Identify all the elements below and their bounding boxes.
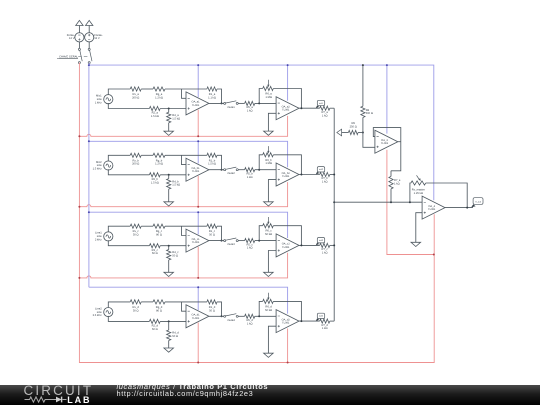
node flag out4: [316, 319, 319, 322]
svg-text:200 Ω: 200 Ω: [132, 96, 139, 99]
resistor R2_c: [149, 244, 160, 248]
wire R7 to summing bus: [330, 107, 334, 109]
CircuitLab logo: [24, 383, 94, 398]
wire R1 down to output: [217, 302, 222, 316]
op-amp OA_a1 TL081: [186, 92, 209, 115]
wire jog to inverting input: [182, 302, 187, 311]
svg-text:1.5 kΩ: 1.5 kΩ: [172, 184, 180, 187]
svg-text:12 V: 12 V: [94, 37, 100, 40]
svg-text:TL081: TL081: [192, 170, 200, 173]
resistor R8: [361, 106, 365, 117]
op-amp OA_d2 TL081: [276, 310, 299, 333]
wire R5 to inverting node: [255, 102, 276, 104]
svg-text:1 kΩ: 1 kΩ: [322, 181, 328, 184]
wire R5 to inverting node: [255, 169, 276, 171]
svg-text:50 Ω: 50 Ω: [152, 328, 158, 331]
power flag V- (arrow): [86, 20, 93, 25]
resistor R4_a (to ground): [168, 109, 170, 113]
svg-text:TL081: TL081: [192, 241, 200, 244]
switch mute1: [224, 102, 226, 104]
footer bar: [0, 385, 540, 405]
wire source bottom: [108, 316, 149, 322]
red drops opamp column 2: [287, 329, 289, 363]
svg-text:12 V: 12 V: [69, 37, 75, 40]
resistor R2_a: [149, 106, 160, 110]
svg-text:mute4: mute4: [227, 319, 235, 322]
summing bus vertical: [333, 108, 335, 321]
op-amp OA_b2 TL081: [276, 163, 299, 186]
wire + input to ground: [268, 326, 276, 353]
svg-text:TL081: TL081: [282, 322, 290, 325]
wire Rx to Rg: [141, 225, 153, 227]
blue power rail: top rail and right vertical: [89, 63, 434, 201]
node junction R4_c: [168, 245, 170, 247]
resistor Rx_a: [130, 87, 141, 91]
red rail row3-4: [79, 253, 287, 278]
op-amp OA_3 TL081: [375, 130, 398, 153]
resistor R7_a: [320, 106, 330, 110]
svg-text:1 kΩ: 1 kΩ: [247, 176, 253, 179]
wire R8 to node: [362, 118, 364, 133]
wire Rg to feedback node: [165, 154, 207, 156]
blue junction dots: [88, 64, 90, 66]
ground: [164, 202, 174, 206]
svg-text:50 Ω: 50 Ω: [172, 335, 178, 338]
resistor R7_b: [320, 172, 330, 176]
wire Rg to feedback node: [165, 301, 207, 303]
resistor Rg_b: [153, 153, 165, 157]
wire R7_e to summing wire: [390, 189, 392, 202]
red junction dots: [78, 135, 80, 137]
blue rail row3-4: [89, 287, 288, 313]
wire source top: [108, 155, 130, 161]
wire R2 to + input: [160, 320, 186, 322]
svg-text:500 Ω: 500 Ω: [366, 112, 373, 115]
resistor R1_c (feedback): [207, 224, 217, 228]
svg-text:1 kΩ: 1 kΩ: [247, 322, 253, 325]
svg-text:80 Ω: 80 Ω: [156, 309, 162, 312]
wire OA_3 output stub: [398, 141, 401, 143]
op-amp OA_b1 TL081: [186, 158, 209, 181]
wire source top: [108, 226, 130, 232]
node flag V_out: [471, 204, 475, 207]
blue drop opamp column 2 row1: [287, 65, 289, 101]
wire op-amp 2 output: [299, 320, 320, 322]
svg-text:1.25 kΩ: 1.25 kΩ: [414, 192, 423, 195]
resistor R1_d (feedback): [207, 300, 217, 304]
wire op-amp output: [209, 169, 225, 171]
resistor Rg_c: [153, 224, 165, 228]
voltage source Fonte- 12 V: [75, 33, 84, 42]
svg-text:mute1: mute1: [227, 106, 235, 109]
blue rail row1-2: [89, 141, 288, 167]
potentiometer Rv_master (feedback): [410, 183, 411, 202]
blue drops opamp column 1: [197, 65, 199, 97]
source Line1 (sine 2 kHz): [104, 232, 113, 241]
potentiometer R6_a (feedback): [259, 89, 263, 104]
resistor R7_e: [390, 171, 392, 177]
red power rail: left vertical, bottom rail, right vertical: [79, 63, 434, 363]
source Line2 (sine 2.5 kHz): [104, 308, 113, 317]
svg-text:50 Ω: 50 Ω: [133, 234, 139, 237]
wire switch to R5: [238, 169, 244, 171]
svg-text:250 Ω: 250 Ω: [350, 125, 357, 128]
ground: [164, 272, 174, 276]
svg-text:50 Ω: 50 Ω: [152, 252, 158, 255]
wire source bottom: [108, 169, 149, 175]
source Mic2 (sine 1.5 kHz): [104, 161, 113, 170]
potentiometer R6_d (feedback): [259, 301, 263, 316]
wire switch to R5: [238, 102, 244, 104]
wire R7 to summing bus: [330, 244, 334, 246]
wire R1 down to output: [217, 89, 222, 103]
wire R2 to + input: [160, 108, 186, 110]
svg-text:1.5 kΩ: 1.5 kΩ: [151, 181, 159, 184]
wire op-amp output: [209, 102, 225, 104]
wire + input to ground: [268, 113, 276, 131]
svg-text:50 Ω: 50 Ω: [209, 234, 215, 237]
wire OA_3 feedback loop: [373, 128, 401, 171]
resistor R1_a (feedback): [207, 87, 217, 91]
wire OA_4 + input to ground: [416, 213, 422, 243]
wire R1 down to output: [217, 155, 222, 169]
resistor R5_d: [245, 314, 255, 318]
op-amp OA_a2 TL081: [276, 97, 299, 120]
voltage source Fonte+ 12 V: [85, 33, 94, 42]
svg-text:1 MΩ: 1 MΩ: [265, 162, 272, 165]
svg-text:1 kΩ: 1 kΩ: [322, 114, 328, 117]
op-amp OA_c2 TL081: [276, 234, 299, 257]
wire Rg to feedback node: [165, 88, 207, 90]
potentiometer R6_b (feedback): [259, 155, 263, 170]
potentiometer R6_c (feedback): [259, 226, 263, 241]
red drops opamp column 1: [197, 110, 199, 137]
svg-text:1 kΩ: 1 kΩ: [322, 252, 328, 255]
resistor Rg_a: [153, 87, 165, 91]
wire R2 to + input: [160, 174, 186, 176]
wire op-amp 2 output: [299, 107, 320, 109]
ground: [411, 242, 421, 246]
wire R8 from V+ rail: [362, 65, 364, 106]
bus junction dots: [333, 174, 335, 176]
wire switch to R5: [238, 315, 244, 317]
ground: [264, 272, 274, 276]
wire source bottom: [108, 240, 149, 246]
node junction R4_b: [168, 174, 170, 176]
svg-text:mute2: mute2: [227, 172, 235, 175]
svg-text:TL081: TL081: [192, 317, 200, 320]
node flag out3: [316, 243, 319, 246]
wire source+ to switch: [88, 42, 90, 49]
wire OA_4 output: [445, 207, 473, 209]
resistor R5_c: [245, 239, 255, 243]
wire op-amp output: [209, 240, 225, 242]
ground: [164, 131, 174, 135]
node flag out1: [316, 106, 319, 109]
svg-text:50 kΩ: 50 kΩ: [265, 233, 272, 236]
svg-text:1.5 kΩ: 1.5 kΩ: [151, 115, 159, 118]
ground: [264, 202, 274, 206]
wire R1 down to output: [217, 226, 222, 240]
wire jog to inverting input: [182, 155, 187, 164]
svg-text:80 Ω: 80 Ω: [156, 234, 162, 237]
svg-text:TL081: TL081: [282, 246, 290, 249]
svg-text:TL081: TL081: [192, 104, 200, 107]
resistor R5_b: [245, 168, 255, 172]
resistor R7_c: [320, 243, 330, 247]
wire + input to ground: [268, 180, 276, 202]
svg-text:50 Ω: 50 Ω: [172, 255, 178, 258]
svg-text:1 kΩ: 1 kΩ: [247, 110, 253, 113]
svg-text:2.5 kHz: 2.5 kHz: [93, 314, 103, 317]
blue rail row2-3: [89, 212, 288, 238]
svg-text:1.1 kΩ: 1.1 kΩ: [208, 96, 216, 99]
op-amp OA_d1 TL081: [186, 305, 209, 328]
svg-text:2 kHz: 2 kHz: [95, 239, 103, 242]
wire Rx to Rg: [141, 301, 153, 303]
wire R7 to summing bus: [330, 174, 334, 176]
svg-text:1.5 kΩ: 1.5 kΩ: [208, 163, 216, 166]
footer text: [117, 382, 269, 391]
svg-text:TL081: TL081: [428, 208, 436, 211]
resistor R2_d: [149, 319, 160, 323]
source Mic1 (sine 1 kHz): [104, 95, 113, 104]
node flag out2: [316, 172, 319, 175]
switch SW1 (CHAVE GERAL pole 1): [78, 48, 80, 50]
svg-text:mute3: mute3: [227, 243, 235, 246]
wire jog to inverting input: [182, 226, 187, 235]
red rail row1-2: [79, 116, 287, 136]
switch mute4: [224, 315, 226, 317]
switch SW2 (CHAVE GERAL pole 2): [88, 48, 90, 50]
resistor Rx_b: [130, 153, 141, 157]
svg-text:50 Ω: 50 Ω: [209, 309, 215, 312]
svg-text:1 MΩ: 1 MΩ: [265, 96, 272, 99]
svg-text:1 kHz: 1 kHz: [95, 101, 103, 104]
resistor R5_a: [245, 101, 255, 105]
wire R2 to + input: [160, 245, 186, 247]
wire source top: [108, 302, 130, 308]
wire Rg to feedback node: [165, 225, 207, 227]
wire op-amp output: [209, 315, 225, 317]
wire Rx to Rg: [141, 154, 153, 156]
svg-text:1 kΩ: 1 kΩ: [247, 247, 253, 250]
wire source bottom: [108, 103, 149, 109]
svg-text:50 Ω: 50 Ω: [133, 309, 139, 312]
wire R7 to summing bus: [330, 320, 334, 322]
wire R9 to node: [358, 132, 363, 134]
wire op-amp 2 output: [299, 174, 320, 176]
resistor R4_d (to ground): [168, 321, 170, 330]
wire summing bus to OA_4 inverting input: [334, 201, 422, 203]
blue drop OA_3: [386, 65, 388, 134]
svg-text:TL081: TL081: [282, 109, 290, 112]
svg-text:1.5 kΩ: 1.5 kΩ: [172, 117, 180, 120]
svg-text:TL081: TL081: [282, 175, 290, 178]
node junction R4_a: [168, 108, 170, 110]
wire switch to R5: [238, 240, 244, 242]
svg-text:TL081: TL081: [381, 142, 389, 145]
ground: [264, 353, 274, 357]
svg-text:1 kΩ: 1 kΩ: [322, 327, 328, 330]
node junction R4_d: [168, 320, 170, 322]
resistor R4_c (to ground): [168, 246, 170, 250]
resistor Rx_c: [130, 224, 141, 228]
power flag V+ (arrow): [76, 20, 83, 25]
resistor Rg_d: [153, 300, 165, 304]
svg-text:V_out: V_out: [475, 200, 481, 203]
node flag (left arrow): [337, 129, 342, 136]
wire Rx to Rg: [141, 88, 153, 90]
resistor R1_b (feedback): [207, 153, 217, 157]
switch mute2: [224, 169, 226, 171]
red rail row2-3: [79, 182, 287, 207]
op-amp OA_4 TL081: [422, 196, 445, 219]
resistor R7_d: [320, 319, 330, 323]
wire R5 to inverting node: [255, 315, 276, 317]
ground: [264, 131, 274, 135]
wire flag to R9: [342, 132, 349, 134]
svg-text:200 Ω: 200 Ω: [132, 163, 139, 166]
wire + input to ground: [268, 251, 276, 273]
wire source top: [108, 89, 130, 95]
ground: [164, 348, 174, 352]
svg-text:CHAVE GERAL: CHAVE GERAL: [59, 56, 78, 59]
svg-text:1.5 kHz: 1.5 kHz: [93, 168, 103, 171]
svg-text:1 kΩ: 1 kΩ: [394, 182, 400, 185]
resistor R9: [348, 130, 358, 134]
wire R5 to inverting node: [255, 240, 276, 242]
blue left vertical: [88, 65, 90, 287]
wire op-amp 2 output: [299, 244, 320, 246]
svg-text:50 kΩ: 50 kΩ: [265, 309, 272, 312]
svg-text:1.2 kΩ: 1.2 kΩ: [155, 96, 163, 99]
red branch OA_3 supply: [387, 150, 434, 255]
op-amp OA_c1 TL081: [186, 229, 209, 252]
wire jog to inverting input: [182, 89, 187, 98]
resistor R2_b: [149, 173, 160, 177]
resistor Rx_d: [130, 300, 141, 304]
wire node to OA_3 + input: [363, 133, 375, 148]
resistor R4_b (to ground): [168, 175, 170, 179]
wire source- to switch: [78, 42, 80, 49]
svg-text:1.2 kΩ: 1.2 kΩ: [155, 163, 163, 166]
switch mute3: [224, 240, 226, 242]
